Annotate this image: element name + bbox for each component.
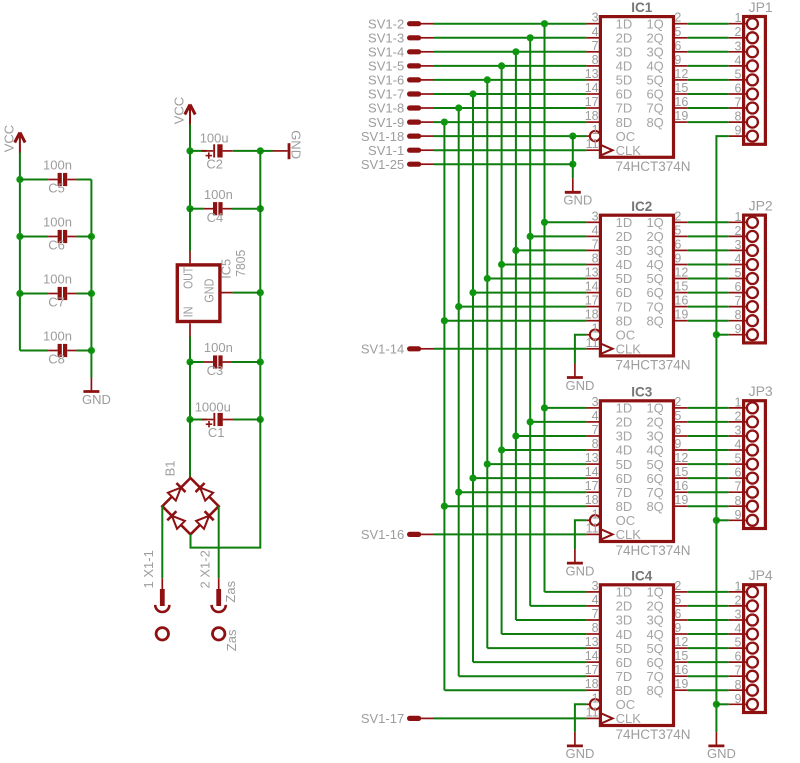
wire data bus vertical SV1-5 (D3) xyxy=(501,66,503,634)
svg-text:12: 12 xyxy=(674,635,688,649)
svg-text:4D: 4D xyxy=(616,257,633,272)
capacitor C1 1000u (polarized) xyxy=(195,399,233,440)
wire GND bus to JP2 pin 9 xyxy=(716,334,728,336)
wire IC2 7Q to JP2 pin 7 xyxy=(688,306,729,308)
wire SV1-6 to IC1 5D xyxy=(434,79,587,81)
svg-text:1: 1 xyxy=(592,507,599,521)
svg-text:13: 13 xyxy=(585,635,599,649)
svg-text:7: 7 xyxy=(592,423,599,437)
svg-text:1: 1 xyxy=(734,11,741,25)
svg-text:CLK: CLK xyxy=(616,711,642,726)
svg-text:7D: 7D xyxy=(616,101,633,116)
svg-text:C2: C2 xyxy=(206,157,223,172)
wire IC2 3Q to JP2 pin 3 xyxy=(688,249,729,251)
svg-text:2: 2 xyxy=(674,579,681,593)
junction D2 at IC1 row xyxy=(512,48,519,55)
svg-text:GND: GND xyxy=(565,746,594,761)
svg-text:SV1-3: SV1-3 xyxy=(368,31,404,46)
svg-text:C1: C1 xyxy=(208,425,225,440)
svg-text:2Q: 2Q xyxy=(646,229,663,244)
wire SV1-2 to IC1 1D xyxy=(434,23,587,25)
svg-text:6Q: 6Q xyxy=(646,471,663,486)
svg-text:4D: 4D xyxy=(616,627,633,642)
wire data D2 tap to IC2 3D xyxy=(516,249,587,251)
junction D5 at IC1 row xyxy=(469,90,476,97)
svg-text:2: 2 xyxy=(734,593,741,607)
svg-text:5D: 5D xyxy=(616,641,633,656)
svg-text:Zas: Zas xyxy=(223,580,238,602)
capacitor C8 100n xyxy=(43,329,77,367)
wire VCC down to C2 node xyxy=(189,124,191,151)
capacitor C7 100n xyxy=(43,272,77,310)
svg-text:8D: 8D xyxy=(616,313,633,328)
wire data D5 tap to IC2 6D xyxy=(473,292,586,294)
svg-text:JP1: JP1 xyxy=(749,0,773,15)
svg-text:GND: GND xyxy=(563,193,592,208)
wire SV1-8 to IC1 7D xyxy=(434,107,587,109)
wire IC4 5Q to JP4 pin 5 xyxy=(688,647,729,649)
node C4 right junction xyxy=(257,205,264,212)
svg-text:OUT: OUT xyxy=(181,267,195,289)
wire IC1 6Q to JP1 pin 6 xyxy=(688,93,729,95)
svg-text:VCC: VCC xyxy=(2,125,17,152)
wire IC1 3Q to JP1 pin 3 xyxy=(688,51,729,53)
node C1 left junction xyxy=(186,416,193,423)
pin stub SV1-2 xyxy=(410,21,434,26)
wire IC1 1Q to JP1 pin 1 xyxy=(688,23,729,25)
wire data D5 tap to IC3 6D xyxy=(473,477,586,479)
svg-text:74HCT374N: 74HCT374N xyxy=(616,357,691,372)
svg-text:GND: GND xyxy=(707,746,736,761)
junction SV1-25 tap xyxy=(569,161,576,168)
svg-text:IC2: IC2 xyxy=(631,199,652,214)
wire VCC to C4 xyxy=(190,208,204,210)
svg-text:3: 3 xyxy=(734,238,741,252)
svg-text:9: 9 xyxy=(734,322,741,336)
wire IC4 6Q to JP4 pin 6 xyxy=(688,661,729,663)
svg-text:1: 1 xyxy=(592,123,599,137)
wire data D4 tap to IC3 5D xyxy=(487,463,586,465)
wire SV1-14 to IC2 CLK xyxy=(434,348,587,350)
svg-text:9: 9 xyxy=(734,124,741,138)
wire C2 node to cap xyxy=(190,150,206,152)
junction D7 at IC1 row xyxy=(441,119,448,126)
svg-text:8Q: 8Q xyxy=(646,683,663,698)
wire data bus vertical SV1-8 (D6) xyxy=(458,108,460,676)
wire 7805 GND pin to right rail xyxy=(233,292,261,294)
power flag VCC (left decoupling bank) xyxy=(2,125,26,153)
svg-text:4Q: 4Q xyxy=(646,443,663,458)
wire data D3 tap to IC3 4D xyxy=(502,449,587,451)
svg-text:5Q: 5Q xyxy=(646,73,663,88)
svg-text:12: 12 xyxy=(674,451,688,465)
junction VCC rail at C7 xyxy=(16,290,23,297)
pin stub SV1-4 xyxy=(410,49,434,54)
wire left rail C2 to C4 xyxy=(189,151,191,209)
wire data D7 tap to IC3 8D xyxy=(444,505,586,507)
wire data D2 tap to IC4 3D xyxy=(516,619,587,621)
svg-text:14: 14 xyxy=(585,649,599,663)
node 7805 GND at right rail xyxy=(257,289,264,296)
wire IC2 4Q to JP2 pin 4 xyxy=(688,264,729,266)
svg-text:6Q: 6Q xyxy=(646,655,663,670)
svg-text:JP2: JP2 xyxy=(749,198,773,214)
svg-text:GND: GND xyxy=(203,279,217,303)
svg-text:7: 7 xyxy=(734,664,741,678)
svg-text:7D: 7D xyxy=(616,485,633,500)
svg-text:2Q: 2Q xyxy=(646,31,663,46)
wire IC2 8Q to JP2 pin 8 xyxy=(688,320,729,322)
junction D6 at IC3 row xyxy=(455,489,462,496)
svg-text:CLK: CLK xyxy=(616,527,642,542)
junction D3 at IC2 row xyxy=(498,261,505,268)
svg-text:8D: 8D xyxy=(616,683,633,698)
svg-text:15: 15 xyxy=(674,81,688,95)
wire SV1-7 to IC1 6D xyxy=(434,93,587,95)
node C4 left junction xyxy=(186,205,193,212)
wire SV1-16 to IC3 CLK xyxy=(434,533,587,535)
wire VCC rail left (C5-C8 bank) xyxy=(19,152,21,350)
wire IC2 1Q to JP2 pin 1 xyxy=(688,221,729,223)
wire VCC to C6 xyxy=(20,236,48,238)
svg-text:SV1-7: SV1-7 xyxy=(368,87,404,102)
svg-text:5: 5 xyxy=(734,266,741,280)
svg-text:8: 8 xyxy=(592,621,599,635)
latch IC2 74HCT374N xyxy=(585,199,691,373)
svg-text:19: 19 xyxy=(674,493,688,507)
ground symbol GND below IC2 xyxy=(565,364,594,393)
junction D1 at IC2 row xyxy=(527,233,534,240)
svg-text:1Q: 1Q xyxy=(646,401,663,416)
junction D7 at IC3 row xyxy=(441,503,448,510)
svg-text:13: 13 xyxy=(585,451,599,465)
wire bridge minus output loop to GND rail xyxy=(191,420,261,548)
wire IC4 2Q to JP4 pin 2 xyxy=(688,605,729,607)
pad circle below X1-2 with net label Zas xyxy=(213,628,240,652)
wire VCC to C8 xyxy=(20,350,48,352)
wire GND branch vertical (SV1-18/SV1-25) xyxy=(572,136,574,178)
svg-text:14: 14 xyxy=(585,465,599,479)
svg-text:8D: 8D xyxy=(616,115,633,130)
wire data D2 tap to IC3 3D xyxy=(516,435,587,437)
svg-text:1 X1-1: 1 X1-1 xyxy=(141,550,156,588)
svg-text:6: 6 xyxy=(734,82,741,96)
svg-text:14: 14 xyxy=(585,280,599,294)
svg-text:2Q: 2Q xyxy=(646,415,663,430)
svg-text:3: 3 xyxy=(734,608,741,622)
ground symbol GND below IC1 xyxy=(563,178,592,207)
svg-text:OC: OC xyxy=(616,327,636,342)
svg-text:SV1-16: SV1-16 xyxy=(361,527,404,542)
svg-text:1: 1 xyxy=(734,579,741,593)
wire data D0 tap to IC2 1D xyxy=(545,221,587,223)
wire data bus vertical SV1-4 (D2) xyxy=(515,52,517,620)
capacitor C4 100n xyxy=(204,187,233,225)
wire IC3 7Q to JP3 pin 7 xyxy=(688,491,729,493)
svg-text:SV1-6: SV1-6 xyxy=(368,73,404,88)
pin stub SV1-16 xyxy=(410,532,434,537)
svg-text:17: 17 xyxy=(585,95,599,109)
svg-text:8: 8 xyxy=(734,678,741,692)
svg-text:6Q: 6Q xyxy=(646,285,663,300)
wire left rail C1 down to bridge + node xyxy=(189,420,191,479)
svg-text:11: 11 xyxy=(586,336,599,350)
svg-text:19: 19 xyxy=(674,677,688,691)
wire IC4 1Q to JP4 pin 1 xyxy=(688,591,729,593)
svg-text:2D: 2D xyxy=(616,415,633,430)
svg-text:5D: 5D xyxy=(616,73,633,88)
svg-text:74HCT374N: 74HCT374N xyxy=(616,727,691,742)
svg-text:8: 8 xyxy=(592,53,599,67)
junction D7 at IC2 row xyxy=(441,317,448,324)
svg-text:18: 18 xyxy=(585,493,599,507)
pin stub SV1-7 xyxy=(410,91,434,96)
svg-text:1: 1 xyxy=(734,395,741,409)
svg-text:6Q: 6Q xyxy=(646,87,663,102)
junction D0 at IC2 row xyxy=(541,219,548,226)
svg-text:100n: 100n xyxy=(204,187,233,202)
svg-text:SV1-1: SV1-1 xyxy=(368,143,404,158)
wire C4 node to 7805 OUT pin xyxy=(189,209,191,251)
svg-text:1D: 1D xyxy=(616,16,633,31)
wire IC3 8Q to JP3 pin 8 xyxy=(688,505,729,507)
svg-text:C6: C6 xyxy=(48,238,65,253)
capacitor C6 100n xyxy=(43,215,77,253)
svg-text:4: 4 xyxy=(592,223,599,237)
svg-text:100n: 100n xyxy=(43,158,72,173)
svg-text:IN: IN xyxy=(181,306,195,317)
wire SV1-17 to IC4 CLK xyxy=(434,717,587,719)
svg-text:100n: 100n xyxy=(204,340,233,355)
svg-text:1: 1 xyxy=(734,210,741,224)
svg-text:1D: 1D xyxy=(616,215,633,230)
connector JP2 xyxy=(729,198,773,343)
wire IC2 5Q to JP2 pin 5 xyxy=(688,278,729,280)
pin stub SV1-5 xyxy=(410,63,434,68)
svg-text:11: 11 xyxy=(586,521,599,535)
svg-text:OC: OC xyxy=(616,697,636,712)
svg-text:CLK: CLK xyxy=(616,143,642,158)
junction D6 at IC1 row xyxy=(455,104,462,111)
svg-text:11: 11 xyxy=(586,705,599,719)
svg-text:1D: 1D xyxy=(616,585,633,600)
wire C3 node to cap xyxy=(190,361,204,363)
node C3 left junction xyxy=(186,358,193,365)
svg-text:100n: 100n xyxy=(43,272,72,287)
svg-text:7: 7 xyxy=(592,39,599,53)
junction VCC rail at C5 xyxy=(16,176,23,183)
svg-text:7: 7 xyxy=(734,96,741,110)
svg-text:17: 17 xyxy=(585,479,599,493)
wire IC3 2Q to JP3 pin 2 xyxy=(688,421,729,423)
pin stub SV1-8 xyxy=(410,105,434,110)
junction D4 at IC3 row xyxy=(484,461,491,468)
svg-text:100n: 100n xyxy=(43,329,72,344)
junction SV1-18 / GND branch xyxy=(569,133,576,140)
wire SV1-25 horizontal xyxy=(434,163,573,165)
svg-text:15: 15 xyxy=(674,649,688,663)
svg-text:SV1-8: SV1-8 xyxy=(368,101,404,116)
wire bridge AC left down to X1-1 xyxy=(161,506,163,578)
svg-text:SV1-25: SV1-25 xyxy=(361,157,404,172)
svg-text:2: 2 xyxy=(734,224,741,238)
junction D2 at IC2 row xyxy=(512,247,519,254)
wire data bus vertical SV1-7 (D5) xyxy=(472,94,474,662)
svg-text:8: 8 xyxy=(734,494,741,508)
svg-text:C8: C8 xyxy=(48,352,65,367)
capacitor C3 100n xyxy=(204,340,233,378)
svg-text:6: 6 xyxy=(674,237,681,251)
wire data D6 tap to IC3 7D xyxy=(459,491,587,493)
capacitor C5 100n xyxy=(43,158,77,196)
svg-text:VCC: VCC xyxy=(172,97,187,124)
svg-text:3D: 3D xyxy=(616,429,633,444)
svg-text:GND: GND xyxy=(82,392,111,407)
svg-text:4: 4 xyxy=(734,438,741,452)
svg-text:1: 1 xyxy=(592,322,599,336)
pin stub SV1-1 xyxy=(410,148,434,153)
svg-text:2: 2 xyxy=(734,25,741,39)
svg-text:4Q: 4Q xyxy=(646,627,663,642)
svg-text:3: 3 xyxy=(734,39,741,53)
connector JP3 xyxy=(729,383,773,528)
node C1 right junction xyxy=(257,416,264,423)
wire IC2 2Q to JP2 pin 2 xyxy=(688,235,729,237)
junction D2 at IC3 row xyxy=(512,432,519,439)
svg-text:9: 9 xyxy=(734,692,741,706)
wire IC2 6Q to JP2 pin 6 xyxy=(688,292,729,294)
svg-text:GND: GND xyxy=(288,130,303,159)
svg-text:4Q: 4Q xyxy=(646,59,663,74)
wire GND bus to JP3 pin 9 xyxy=(716,519,728,521)
svg-text:6: 6 xyxy=(674,607,681,621)
wire JP pin-9 GND bus xyxy=(716,136,728,732)
svg-text:GND: GND xyxy=(565,563,594,578)
svg-text:3: 3 xyxy=(592,209,599,223)
svg-text:5: 5 xyxy=(734,67,741,81)
svg-text:7: 7 xyxy=(734,480,741,494)
svg-text:8Q: 8Q xyxy=(646,313,663,328)
svg-text:GND: GND xyxy=(565,378,594,393)
wire C3 to right rail xyxy=(232,361,260,363)
svg-text:18: 18 xyxy=(585,677,599,691)
svg-text:7: 7 xyxy=(734,294,741,308)
junction JP4 pin 9 on GND bus xyxy=(713,701,720,708)
wire data bus vertical SV1-9 (D7) xyxy=(443,122,445,690)
svg-text:7805: 7805 xyxy=(234,250,248,277)
wire IC2 OC to GND xyxy=(575,335,587,364)
svg-text:6D: 6D xyxy=(616,655,633,670)
capacitor C2 100u (polarized) xyxy=(200,131,233,172)
wire IC4 7Q to JP4 pin 7 xyxy=(688,675,729,677)
svg-text:6D: 6D xyxy=(616,471,633,486)
svg-text:15: 15 xyxy=(674,280,688,294)
svg-text:12: 12 xyxy=(674,67,688,81)
ground symbol GND (JP bus, bottom right) xyxy=(707,732,736,761)
connector pin X1-1 (pin 1) xyxy=(141,550,169,612)
svg-text:19: 19 xyxy=(674,109,688,123)
svg-text:SV1-18: SV1-18 xyxy=(361,129,404,144)
svg-text:3Q: 3Q xyxy=(646,429,663,444)
connector JP4 xyxy=(729,567,773,712)
svg-text:74HCT374N: 74HCT374N xyxy=(616,543,691,558)
svg-text:IC3: IC3 xyxy=(631,384,653,399)
svg-text:12: 12 xyxy=(674,266,688,280)
wire data D0 tap to IC4 1D xyxy=(545,591,587,593)
junction D4 at IC2 row xyxy=(484,275,491,282)
svg-text:8Q: 8Q xyxy=(646,499,663,514)
svg-text:B1: B1 xyxy=(163,460,178,476)
svg-text:JP3: JP3 xyxy=(749,383,773,399)
wire C2 to right rail xyxy=(233,150,260,152)
wire IC4 3Q to JP4 pin 3 xyxy=(688,619,729,621)
junction VCC rail at C6 xyxy=(16,233,23,240)
svg-text:7: 7 xyxy=(592,607,599,621)
voltage regulator IC5 7805 xyxy=(177,250,248,337)
svg-text:IC1: IC1 xyxy=(631,0,653,15)
svg-text:16: 16 xyxy=(674,663,688,677)
svg-text:2: 2 xyxy=(674,395,681,409)
svg-text:9: 9 xyxy=(674,53,681,67)
pin stub SV1-6 xyxy=(410,77,434,82)
wire IC3 5Q to JP3 pin 5 xyxy=(688,463,729,465)
svg-text:5D: 5D xyxy=(616,271,633,286)
svg-text:6D: 6D xyxy=(616,87,633,102)
junction JP2 pin 9 on GND bus xyxy=(713,331,720,338)
wire IC3 OC to GND xyxy=(575,520,587,549)
svg-text:1: 1 xyxy=(592,691,599,705)
wire 7805 IN down to C3 xyxy=(189,337,191,363)
wire IC3 3Q to JP3 pin 3 xyxy=(688,435,729,437)
wire data D3 tap to IC4 4D xyxy=(502,633,587,635)
svg-text:19: 19 xyxy=(674,308,688,322)
svg-text:4: 4 xyxy=(592,409,599,423)
wire data D1 tap to IC3 2D xyxy=(530,421,586,423)
svg-text:OC: OC xyxy=(616,513,636,528)
svg-text:2: 2 xyxy=(734,409,741,423)
wire C2 node to GND flag xyxy=(260,150,272,152)
svg-text:4: 4 xyxy=(592,593,599,607)
wire data bus vertical SV1-6 (D4) xyxy=(486,80,488,648)
wire C7 to GND rail xyxy=(77,293,92,295)
svg-text:6: 6 xyxy=(734,650,741,664)
ground symbol GND below IC3 xyxy=(565,549,594,578)
wire C1 to right rail xyxy=(233,419,260,421)
pin stub SV1-18 xyxy=(410,134,434,139)
junction D6 at IC2 row xyxy=(455,303,462,310)
wire IC1 8Q to JP1 pin 8 xyxy=(688,121,729,123)
wire IC3 1Q to JP3 pin 1 xyxy=(688,407,729,409)
svg-text:3: 3 xyxy=(592,11,599,25)
svg-text:3Q: 3Q xyxy=(646,243,663,258)
svg-text:5Q: 5Q xyxy=(646,271,663,286)
wire GND bus to JP4 pin 9 xyxy=(716,703,728,705)
wire VCC to C5 xyxy=(20,179,48,181)
junction D4 at IC1 row xyxy=(484,76,491,83)
svg-text:C4: C4 xyxy=(207,210,224,225)
wire IC4 OC to GND xyxy=(575,704,587,732)
wire C6 to GND rail xyxy=(77,236,92,238)
ground symbol GND below IC4 xyxy=(565,732,594,761)
ground symbol GND (decoupling bank) xyxy=(82,378,111,407)
wire bridge AC right down to X1-2 xyxy=(218,506,220,578)
junction D5 at IC3 row xyxy=(469,475,476,482)
svg-text:1Q: 1Q xyxy=(646,16,663,31)
svg-text:9: 9 xyxy=(674,252,681,266)
wire IC1 2Q to JP1 pin 2 xyxy=(688,37,729,39)
svg-text:3: 3 xyxy=(734,424,741,438)
svg-text:7D: 7D xyxy=(616,669,633,684)
